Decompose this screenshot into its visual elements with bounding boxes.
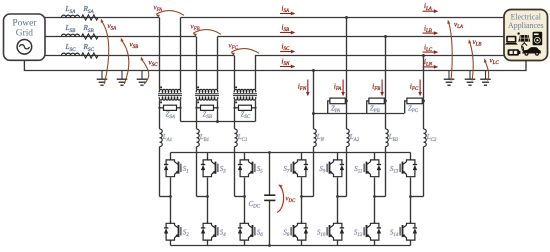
wire bus A right segment [181, 17, 505, 19]
ground vLB [469, 71, 471, 80]
arrow iLC [423, 51, 436, 53]
ground vs3 [141, 71, 143, 80]
node ZSB right tee [216, 107, 218, 109]
inductor LB2 [386, 129, 389, 147]
wire phase B shunt drop [385, 37, 387, 130]
wire leg S78 column [301, 153, 303, 159]
node phase C shunt tap [422, 54, 425, 57]
arrow vSC [141, 59, 149, 84]
inductor LA2 [347, 129, 350, 147]
arrow vFA [156, 11, 184, 16]
wire leg S34 column [207, 153, 209, 159]
inductor LSC [62, 53, 80, 55]
node leg S56 midpoint [243, 195, 246, 198]
transistor S7 [298, 158, 302, 162]
icon solar panel [517, 32, 519, 34]
wire LB1 to leg [196, 147, 198, 197]
node ZSA right tee [179, 107, 181, 109]
wire LC1 to leg [234, 147, 236, 197]
transformer TB polarity dot secondary [197, 101, 199, 103]
wire DC bottom rail [171, 245, 411, 247]
transistor S13 [407, 158, 411, 162]
resistor RSA [82, 15, 99, 20]
transistor S1 [171, 158, 175, 162]
wire bus C right segment [255, 55, 504, 57]
node phase A shunt tap [345, 16, 348, 19]
wire ZSB left connector [197, 107, 201, 109]
resistor RSC [82, 53, 99, 58]
impedance ZSC [239, 105, 252, 110]
arrow iSC [280, 51, 293, 53]
arrow vLA [448, 21, 452, 81]
ground vLC [485, 71, 487, 80]
wire TB secondary left lead [196, 100, 198, 129]
node star rail junction T B [216, 120, 219, 123]
wire bus A left segment [45, 17, 160, 19]
wire phase A rise from transformer [180, 18, 182, 90]
wire LA1 to leg [159, 147, 161, 197]
transformer TB polarity dot primary [197, 86, 199, 88]
wire jog to leg midpoint [197, 196, 208, 198]
wire phase C rise from transformer [255, 56, 257, 90]
transistor S14 [407, 221, 411, 225]
wire leg S1112 column [374, 153, 376, 159]
wire TA secondary left lead [159, 100, 161, 129]
wire bus B right segment [218, 36, 505, 38]
node leg S910 midpoint [336, 195, 339, 198]
node ZSA left tee [158, 107, 160, 109]
transistor S5 [245, 158, 249, 162]
wire ZSC right connector [252, 107, 256, 109]
resistor RSB [82, 34, 99, 39]
ground vLA [448, 71, 450, 80]
transistor S10 [334, 221, 338, 225]
arrow iFC [419, 80, 421, 94]
transformer TC secondary winding [234, 97, 255, 100]
inductor LSA [62, 15, 80, 17]
node DC link top [268, 151, 271, 154]
arrow iLA [423, 10, 436, 12]
wire LB2 to leg [385, 147, 387, 197]
svg-text:Power: Power [12, 19, 37, 29]
svg-text:Appliances: Appliances [508, 21, 544, 30]
impedance ZPB [369, 98, 384, 104]
wire DC link bottom [269, 200, 271, 245]
node leg S78 midpoint [300, 195, 303, 198]
wire leg S56 column [244, 153, 246, 159]
wire jog to leg midpoint [338, 196, 347, 198]
ground vs1 [101, 71, 103, 80]
wire LC2 to leg [423, 147, 425, 197]
transformer TA polarity dot primary [160, 86, 162, 88]
wire ZSB right connector [214, 107, 218, 109]
wire bus B left segment [45, 36, 196, 38]
wire phase C shunt drop [423, 56, 425, 130]
transformer TC core [233, 93, 257, 95]
transformer TB secondary winding [196, 97, 217, 100]
inductor LC1 [235, 129, 238, 147]
wire DC link top [269, 153, 271, 196]
arrow iSB [280, 32, 293, 34]
wire ZPB left connector [367, 101, 369, 114]
wire ZPA left connector [328, 101, 330, 114]
inductor LC2 [424, 129, 427, 147]
wire leg S910 column [337, 153, 339, 159]
wire LN to leg [313, 147, 315, 197]
node neutral drop junction [312, 69, 315, 72]
wire phase B rise from transformer [217, 37, 219, 90]
transformer TA secondary winding [159, 97, 180, 100]
arrow iLB [423, 32, 436, 34]
icon laptop [506, 36, 516, 43]
arrow iFN [307, 80, 309, 94]
wire TB secondary right lead [217, 100, 219, 121]
wire LA2 to leg [346, 147, 348, 197]
wire TC secondary left lead [234, 100, 236, 129]
arrow iSN [280, 66, 293, 68]
arrow vLC [485, 60, 489, 81]
wire jog to leg midpoint [302, 196, 314, 198]
arrow iFA [342, 80, 344, 94]
arrow vSA [101, 21, 109, 84]
transistor S2 [171, 221, 175, 225]
power grid box [4, 14, 46, 60]
electrical appliances box [504, 10, 548, 61]
arrow iFB [381, 80, 383, 94]
node ZP rail junction [312, 112, 315, 115]
wire ZPA right connector [345, 100, 346, 102]
wire ZSA left connector [160, 107, 164, 109]
wire jog to leg midpoint [375, 196, 386, 198]
arrow iLN [423, 66, 436, 68]
node leg S34 midpoint [206, 195, 209, 198]
capacitor CDC [264, 194, 275, 196]
wire ZSC left connector [235, 107, 239, 109]
arrow vSB [121, 40, 129, 84]
wire phase A shunt drop [346, 18, 348, 130]
transistor S12 [371, 221, 375, 225]
wire phase A drop to transformer [159, 18, 161, 90]
inductor LSB [62, 34, 80, 36]
AC source symbol [17, 40, 32, 55]
wire ZPC right connector [422, 100, 423, 102]
wire phase C drop to transformer [234, 56, 236, 90]
arrow iSA [280, 13, 293, 15]
node phase B shunt tap [384, 35, 387, 38]
wire jog to leg midpoint [160, 196, 171, 198]
inductor LA1 [160, 129, 163, 147]
ground vs2 [121, 71, 123, 80]
node ZPA junction [345, 100, 348, 103]
node ZSB left tee [195, 107, 197, 109]
transformer TA primary winding [159, 89, 180, 92]
transformer TC polarity dot primary [235, 86, 237, 88]
transformer TB core [195, 93, 219, 95]
wire neutral bus [24, 60, 526, 70]
wire ZP star rail [314, 113, 405, 115]
transistor S3 [208, 158, 212, 162]
transformer TB primary winding [196, 89, 217, 92]
wire bus C left segment [45, 55, 235, 57]
transformer TA core [158, 93, 182, 95]
node ZPB junction [384, 100, 387, 103]
wire jog to leg midpoint [411, 196, 424, 198]
transformer TA polarity dot secondary [160, 101, 162, 103]
wire jog to leg midpoint [235, 196, 245, 198]
wire DC top rail [171, 152, 411, 154]
node ZSC right tee [254, 107, 256, 109]
wire TA secondary right lead [180, 100, 182, 121]
wire TC secondary right lead [255, 100, 257, 121]
node leg S1112 midpoint [373, 195, 376, 198]
wire neutral drop [313, 71, 315, 130]
transistor S9 [334, 158, 338, 162]
impedance ZSA [164, 105, 177, 110]
arrow vFB [193, 30, 221, 35]
icon washing machine [533, 32, 543, 45]
wire ZPC left connector [405, 101, 407, 114]
node leg S1314 midpoint [409, 195, 412, 198]
svg-text:Grid: Grid [16, 29, 33, 39]
wire phase B drop to transformer [196, 37, 198, 90]
arrow vDC [277, 185, 284, 213]
transistor S4 [208, 221, 212, 225]
node ZPC junction [422, 100, 425, 103]
impedance ZPC [407, 98, 422, 104]
node leg S12 midpoint [169, 195, 172, 198]
node DC link bottom [268, 244, 271, 247]
node ZSC left tee [233, 107, 235, 109]
wire leg S12 column [170, 153, 172, 159]
wire leg S1314 column [410, 153, 412, 159]
icon battery [508, 49, 519, 55]
transformer TC polarity dot secondary [235, 101, 237, 103]
transformer TC primary winding [234, 89, 255, 92]
transistor S11 [371, 158, 375, 162]
wire ZSA right connector [177, 107, 181, 109]
impedance ZSB [201, 105, 214, 110]
arrow vLB [469, 41, 473, 81]
impedance ZPA [330, 98, 345, 104]
transistor S6 [245, 221, 249, 225]
inductor LN [314, 129, 317, 147]
icon electric car [522, 46, 524, 50]
wire secondary star rail [181, 121, 256, 123]
arrow vFC [231, 49, 259, 54]
transistor S8 [298, 221, 302, 225]
inductor LB1 [197, 129, 200, 147]
wire ZPB right connector [384, 100, 385, 102]
